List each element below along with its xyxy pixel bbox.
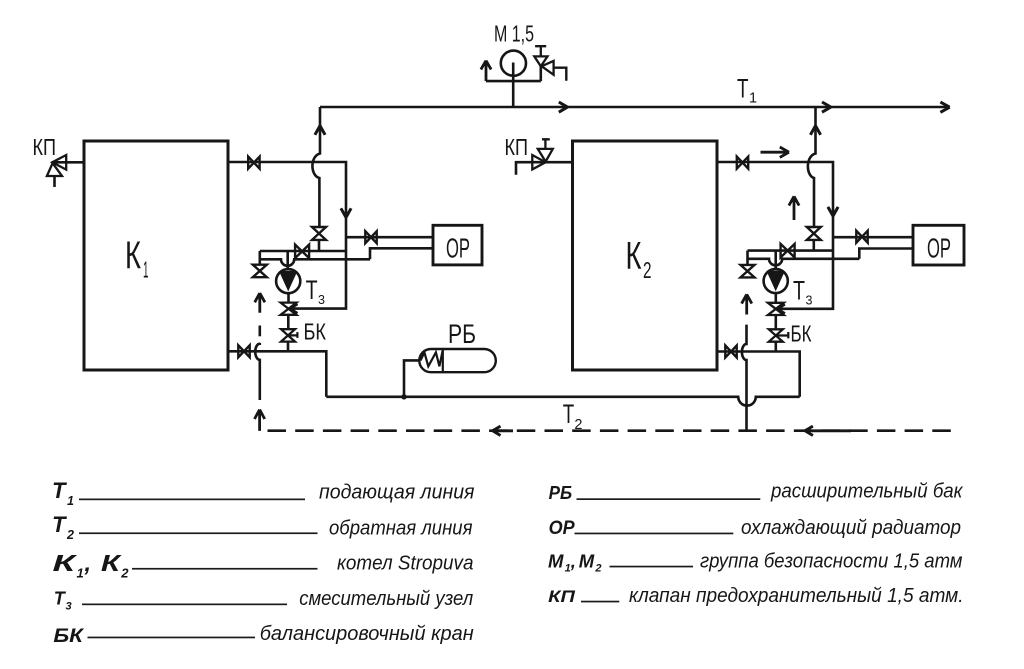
svg-text:М: М: [548, 550, 564, 571]
wire K1 riser from T1: [312, 107, 320, 251]
svg-text:1: 1: [565, 563, 571, 575]
safety valve SV1 spring stem: [535, 46, 546, 56]
svg-text:РБ: РБ: [448, 319, 476, 349]
arrow T1 right end: [940, 102, 949, 112]
label KP1: [33, 134, 57, 160]
wire K1 check valve to BK: [287, 315, 290, 329]
svg-text:КП: КП: [33, 134, 57, 160]
wire K2 pump stem: [774, 251, 777, 270]
valve K2 header: [781, 244, 795, 258]
valve KP2 spring stem: [542, 139, 550, 149]
valve K1 left stub: [253, 265, 267, 278]
valve K1 outlet: [248, 157, 259, 169]
wire K2 riser from T1: [808, 107, 816, 251]
valve KP1 triangle left: [52, 155, 66, 170]
svg-text:РБ: РБ: [549, 483, 573, 503]
valve K1 riser: [312, 227, 326, 240]
wire K2 pump to check valve: [774, 293, 777, 303]
node RB junction: [401, 394, 406, 399]
wire K1 lower line with pump stem jump: [260, 259, 370, 266]
LEGEND: [52, 478, 964, 647]
boiler K2: [573, 141, 718, 370]
wire BK1 to return pipe: [287, 342, 290, 352]
svg-text:Т: Т: [52, 478, 67, 503]
wire K1 header left end down: [258, 251, 261, 265]
svg-text:Т: Т: [793, 275, 805, 305]
svg-text:ОР: ОР: [549, 517, 576, 539]
svg-text:2: 2: [66, 528, 74, 542]
label T1: [737, 73, 757, 106]
legend line KP: [581, 601, 619, 603]
wire manometer stem: [512, 63, 515, 108]
arrow flow right above K2 outlet: [761, 147, 790, 157]
wire KP1 stem: [53, 176, 56, 187]
arrow into K1 check valve: [290, 304, 298, 314]
svg-text:1: 1: [143, 257, 149, 283]
wire K2 T2 riser lower segment with jump over return: [742, 325, 747, 431]
safety valve SV1 triangle left: [542, 61, 554, 75]
wire K2 check valve to BK: [774, 315, 777, 329]
svg-text:расширительный бак: расширительный бак: [770, 480, 964, 503]
wire safety group manifold: [486, 80, 541, 83]
arrow up floating K2: [789, 196, 799, 220]
valve BK1 handle: [288, 332, 297, 338]
manometer M 1,5 circle: [501, 51, 526, 76]
wire BK2 to return pipe: [774, 342, 777, 352]
arrow into K2 check valve: [777, 304, 785, 314]
svg-text:БК: БК: [304, 318, 327, 344]
wire K2 T2 riser upper with arrow: [742, 294, 752, 314]
valve OP2 supply: [856, 231, 867, 243]
arrow T1 after K2 riser: [822, 102, 831, 112]
svg-text:1: 1: [749, 91, 757, 107]
arrow down on K1 drop line: [341, 208, 351, 217]
label BK1: [304, 318, 327, 344]
svg-text:группа безопасности 1,5 атм: группа безопасности 1,5 атм: [700, 549, 963, 572]
svg-text:3: 3: [806, 294, 813, 308]
svg-text:М: М: [579, 550, 595, 571]
safety valve SV1 triangle down: [534, 56, 547, 66]
svg-text:охлаждающий радиатор: охлаждающий радиатор: [741, 516, 961, 539]
label K1: [125, 235, 149, 283]
wire OP1 supply pipe: [346, 236, 433, 239]
arrow T2 left near K2: [805, 426, 851, 435]
pump P2: [764, 269, 788, 293]
svg-text:КП: КП: [548, 588, 576, 606]
legend line T1: [79, 499, 305, 501]
check valve K2 below pump: [768, 303, 784, 315]
check valve K1 below pump: [281, 303, 297, 315]
wire K1 top outlet pipe: [228, 162, 346, 309]
svg-text:обратная линия: обратная линия: [329, 516, 473, 539]
label T3 K1: [306, 275, 325, 307]
valve BK2 handle: [776, 332, 789, 338]
svg-text:КП: КП: [505, 134, 529, 160]
valve KP2 triangle right: [532, 155, 545, 169]
svg-text:2: 2: [594, 563, 601, 575]
valve K1 header: [295, 245, 309, 259]
valve K1 return: [238, 345, 249, 357]
wire K2 mixing header upper: [748, 249, 834, 252]
valve K2 return: [725, 346, 736, 358]
wire OP2 supply pipe: [833, 236, 913, 239]
svg-text:2: 2: [643, 257, 652, 283]
wire K1 T2 riser upper with arrow: [255, 293, 265, 313]
svg-text:клапан предохранительный 1,5 а: клапан предохранительный 1,5 атм.: [629, 584, 964, 607]
arrow up on K2 riser: [810, 126, 820, 135]
valve OP1 supply: [365, 231, 376, 243]
arrow K1 T2 riser bottom: [255, 410, 265, 431]
wire K2 top outlet pipe: [717, 162, 833, 309]
wire RB connector: [404, 360, 420, 396]
svg-text:2: 2: [120, 566, 129, 581]
wire K1 return pipe: [228, 351, 326, 397]
valve BK2: [769, 329, 783, 341]
wire KP1 pipe: [52, 161, 84, 164]
svg-text:3: 3: [66, 601, 72, 613]
svg-text:ОР: ОР: [927, 232, 951, 263]
svg-text:2: 2: [574, 417, 582, 433]
label BK2: [791, 321, 812, 347]
tank RB divider: [442, 349, 444, 372]
valve K2 outlet: [737, 157, 748, 169]
arrow up on K1 riser: [315, 126, 325, 135]
air vent line with arrow: [481, 61, 491, 82]
svg-text:,: ,: [84, 550, 92, 576]
svg-text:смесительный узел: смесительный узел: [299, 587, 473, 610]
arrow T1 mid flow: [559, 102, 568, 112]
svg-text:К: К: [125, 235, 141, 278]
wire K1 T2 riser jump over return: [255, 343, 260, 400]
wire return collector: [326, 397, 799, 406]
svg-text:БК: БК: [791, 321, 812, 347]
svg-text:БК: БК: [53, 625, 85, 647]
valve KP1 triangle up: [47, 163, 62, 176]
label OP1: [446, 232, 470, 263]
svg-text:Т: Т: [52, 512, 67, 537]
label T3 K2: [793, 275, 813, 307]
svg-text:1: 1: [77, 566, 84, 581]
svg-text:М 1,5: М 1,5: [494, 21, 534, 47]
boiler K1: [84, 141, 228, 370]
svg-text:Т: Т: [563, 399, 575, 429]
wire OP2 return pipe: [859, 249, 913, 259]
label T2: [563, 399, 583, 433]
arrow T2 left near K1: [493, 426, 513, 435]
label OP2: [927, 232, 951, 263]
wire K1 pump to check valve: [287, 293, 290, 302]
legend line OP: [575, 533, 734, 535]
wire K1 mixing header upper: [260, 250, 346, 253]
legend line BK: [88, 637, 256, 639]
wire K2 return pipe: [717, 352, 800, 397]
wire K1 pump stem: [286, 251, 289, 269]
svg-text:1: 1: [67, 494, 74, 508]
legend line M1M2: [610, 566, 694, 568]
legend line T2: [79, 532, 318, 534]
svg-text:Т: Т: [737, 73, 749, 103]
wire T1 supply main line: [320, 106, 948, 109]
valve K2 riser: [807, 227, 821, 240]
svg-text:балансировочный кран: балансировочный кран: [260, 622, 474, 645]
svg-text:К: К: [626, 235, 642, 278]
wire OP1 return pipe: [370, 248, 433, 259]
radiator box OP1: [433, 225, 482, 265]
wire SV1 discharge: [554, 68, 567, 81]
wire KP2 pipe and elbow: [516, 162, 573, 175]
legend line RB: [577, 498, 761, 500]
valve BK1: [281, 329, 295, 341]
svg-text:подающая линия: подающая линия: [319, 480, 475, 503]
wire K1 T2 riser dash: [258, 326, 261, 337]
valve KP2 triangle down: [538, 149, 553, 162]
wire K2 header left end down: [746, 251, 749, 266]
svg-text:К: К: [101, 550, 122, 576]
svg-text:,: ,: [570, 550, 576, 571]
pump P1: [276, 269, 300, 293]
svg-text:К: К: [53, 550, 78, 576]
svg-text:ОР: ОР: [446, 232, 470, 263]
valve K2 left stub: [741, 265, 755, 278]
safety valve SV1 stem lower: [539, 66, 542, 81]
arrow down on K2 drop line: [828, 207, 838, 216]
label M 1,5: [494, 21, 534, 47]
tank RB spring: [421, 351, 443, 367]
radiator box OP2: [913, 225, 964, 265]
wire T2 return dashed line: [268, 429, 960, 432]
label K2: [626, 235, 652, 283]
legend line T3: [82, 604, 287, 606]
svg-text:3: 3: [318, 293, 325, 307]
label KP2: [505, 134, 529, 160]
label RB: [448, 319, 476, 349]
legend line K1K2: [132, 568, 318, 570]
wire K2 lower line with pump stem jump: [748, 259, 860, 266]
svg-text:Т: Т: [306, 275, 318, 305]
expansion tank RB: [419, 349, 496, 372]
svg-text:котел Stropuva: котел Stropuva: [337, 552, 474, 575]
